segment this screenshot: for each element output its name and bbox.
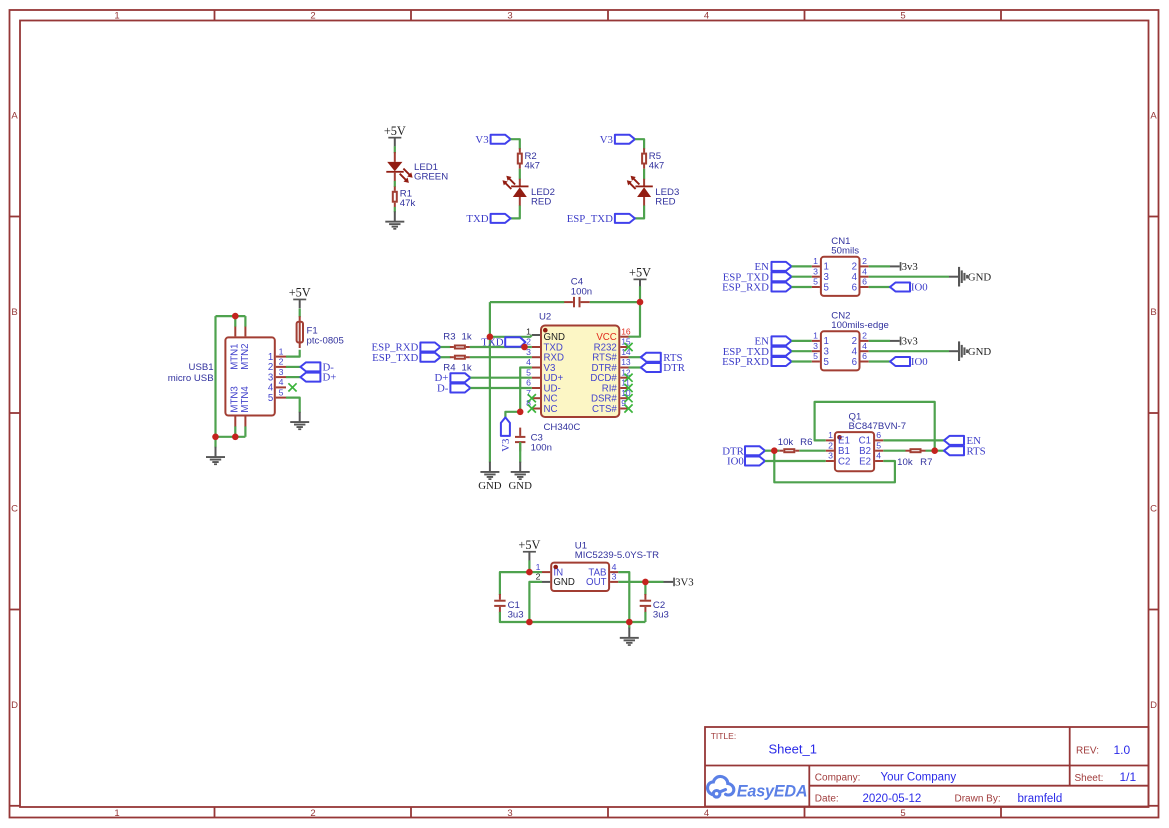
- title value Sheet_1: [769, 742, 817, 757]
- svg-text:10k: 10k: [897, 457, 913, 468]
- USB1 pin 5: [268, 387, 286, 404]
- CN1 pin 4: [852, 266, 869, 283]
- svg-text:3: 3: [279, 367, 284, 377]
- wire LED3 to ESP_TXD flag: [635, 206, 644, 219]
- svg-text:3: 3: [612, 572, 617, 582]
- wire MTN1 to top rail: [234, 316, 236, 327]
- svg-text:V3: V3: [475, 134, 488, 146]
- U1 pin 2 GND: [536, 572, 575, 589]
- svg-text:MTN2: MTN2: [240, 343, 251, 369]
- svg-text:+5V: +5V: [518, 538, 540, 552]
- svg-text:100mils-edge: 100mils-edge: [831, 320, 889, 331]
- U2 pin 6 UD-: [526, 378, 561, 395]
- wire CN2 pin4 to GND: [869, 350, 949, 352]
- svg-text:5: 5: [824, 357, 829, 368]
- net flag TXD (U2): [505, 337, 525, 347]
- net flag EN (CN1): [772, 262, 792, 271]
- junction (GND rail right): [626, 619, 633, 626]
- svg-text:ESP_TXD: ESP_TXD: [567, 213, 613, 225]
- title label TITLE:: [711, 731, 737, 741]
- net label V3 (LED3): [600, 134, 613, 146]
- wire ground rail: [500, 612, 646, 622]
- U1 pin 3 OUT: [586, 572, 618, 589]
- svg-text:4: 4: [704, 808, 709, 819]
- LED LED3 (red): [627, 176, 653, 206]
- svg-text:4: 4: [279, 377, 284, 387]
- svg-text:C: C: [1150, 504, 1157, 515]
- svg-text:GND: GND: [968, 346, 992, 358]
- svg-text:EasyEDA: EasyEDA: [737, 782, 808, 800]
- svg-text:NC: NC: [544, 404, 558, 415]
- svg-text:Company:: Company:: [815, 772, 861, 783]
- svg-text:3V3: 3V3: [675, 577, 694, 589]
- svg-text:ptc-0805: ptc-0805: [307, 336, 344, 347]
- IC U1 MIC5239-5.0YS-TR body: [551, 563, 609, 591]
- U2 pin 11 RI#: [602, 378, 631, 395]
- svg-text:R7: R7: [920, 457, 932, 468]
- net label ESP_RXD (CN1): [722, 282, 769, 294]
- wire USB1 pin2 to D- flag: [286, 366, 300, 368]
- svg-text:3v3: 3v3: [902, 261, 918, 273]
- svg-text:C2: C2: [838, 456, 850, 467]
- label C1 3u3: [508, 600, 524, 620]
- svg-text:5: 5: [900, 11, 905, 22]
- svg-text:6: 6: [876, 430, 881, 440]
- CN1 pin 3: [812, 266, 829, 283]
- USB1 pin MTN3: [230, 386, 241, 426]
- svg-text:2020-05-12: 2020-05-12: [863, 793, 922, 805]
- svg-text:Your Company: Your Company: [881, 772, 957, 784]
- net flag D+ (U2): [450, 373, 470, 382]
- net flag V3 (LED2): [491, 135, 511, 144]
- net label EN (CN1): [754, 261, 769, 273]
- label LED2 RED: [531, 187, 555, 207]
- net flag DTR (Q1): [745, 446, 765, 455]
- svg-text:3u3: 3u3: [653, 610, 669, 621]
- wire ESP_RXD to CN2: [792, 360, 812, 362]
- wire CN1 pin4 to GND: [869, 276, 949, 278]
- wire Q1 pin6 C1 to EN flag: [883, 439, 944, 441]
- svg-text:6: 6: [862, 277, 867, 287]
- wire U2 pin4 V3 down: [520, 368, 532, 412]
- no-connect X (USB1 pin 4): [288, 383, 296, 391]
- svg-text:6: 6: [526, 378, 531, 388]
- label R3 1k: [443, 332, 472, 343]
- wire ESP_RXD flag to R3: [440, 346, 450, 348]
- svg-text:3u3: 3u3: [508, 610, 524, 621]
- CN2 pin 1: [812, 331, 829, 348]
- net flag ESP_TXD (CN1): [772, 272, 792, 281]
- title label Date:: [815, 794, 839, 805]
- wire +5V to VCC node: [639, 286, 641, 302]
- wire R1 to ground: [394, 207, 396, 212]
- power flag 3V3 (U1): [664, 577, 694, 589]
- svg-text:REV:: REV:: [1076, 746, 1099, 757]
- wire D+ to U2 pin5 UD+: [470, 377, 531, 379]
- label C4 100n: [571, 276, 592, 297]
- svg-text:A: A: [11, 111, 18, 122]
- wire R3 to U2 pin2 TXD: [470, 346, 532, 348]
- USB1 pin MTN4: [240, 386, 251, 427]
- wire +5V to LED1 anode: [394, 146, 396, 153]
- U2 pin 9 CTS#: [592, 398, 628, 415]
- net label D- (USB1): [323, 361, 335, 373]
- svg-text:ESP_TXD: ESP_TXD: [372, 352, 418, 364]
- net flag ESP_RXD (CN2): [772, 357, 792, 366]
- net flag IO0 (CN1): [890, 283, 910, 292]
- USB1 pin 2: [268, 357, 286, 374]
- net label TXD (U2): [481, 337, 503, 349]
- svg-text:1: 1: [813, 331, 818, 341]
- transistor array Q1 body: [835, 432, 874, 471]
- svg-text:16: 16: [621, 326, 631, 336]
- svg-text:4k7: 4k7: [649, 160, 664, 171]
- svg-text:Sheet_1: Sheet_1: [769, 742, 817, 757]
- frame row labels A-D right: [1150, 111, 1157, 712]
- svg-text:9: 9: [621, 398, 626, 408]
- label U2: [539, 312, 551, 323]
- wire GND vertical: [489, 302, 491, 462]
- title label Company:: [815, 772, 861, 783]
- resistor R5: [642, 148, 646, 169]
- wire shield to ground: [214, 437, 216, 448]
- CN1 pin 2: [852, 256, 869, 273]
- net flag ESP_TXD (U2): [420, 353, 440, 362]
- net label V3 (C3): [500, 439, 512, 452]
- label LED3 RED: [655, 187, 679, 207]
- wire shield top: [216, 315, 246, 317]
- svg-text:1k: 1k: [462, 363, 472, 374]
- svg-text:100n: 100n: [531, 442, 552, 453]
- svg-text:10k: 10k: [778, 437, 794, 448]
- svg-text:2: 2: [862, 256, 867, 266]
- svg-text:GND: GND: [968, 272, 992, 284]
- svg-text:GREEN: GREEN: [414, 172, 448, 183]
- net label GND (right): [508, 480, 532, 492]
- svg-text:B: B: [1150, 307, 1156, 318]
- svg-text:RED: RED: [655, 196, 675, 207]
- ground (USB1 shield): [206, 447, 225, 465]
- label 10k R7: [897, 457, 932, 468]
- CN2 pin 4: [852, 341, 869, 358]
- USB1 pin 4: [268, 377, 286, 394]
- U2 pin 2 TXD: [526, 337, 563, 354]
- wire +5V node to U1 pin1: [529, 571, 542, 573]
- wire R7 to RTS flag: [926, 450, 945, 452]
- wire EN to CN1: [792, 265, 812, 267]
- net label ESP_TXD (CN1): [723, 271, 769, 283]
- net label DTR (U2): [663, 362, 685, 374]
- wire V3 flag to R2: [511, 139, 520, 149]
- svg-text:1.0: 1.0: [1114, 743, 1131, 757]
- svg-text:R3: R3: [443, 332, 455, 343]
- svg-text:47k: 47k: [400, 198, 416, 209]
- junction (GND net at U2 pin1): [487, 334, 494, 341]
- svg-text:GND: GND: [553, 577, 575, 588]
- USB1 pin 3: [268, 367, 286, 384]
- net flag ESP_RXD (U2): [420, 343, 440, 352]
- net label TXD (LED2): [466, 213, 488, 225]
- svg-text:IO0: IO0: [727, 456, 744, 468]
- label CN1 50mils: [831, 236, 859, 256]
- wire R6 to Q1 pin2 B1: [799, 450, 825, 452]
- junction (shield bottom left): [212, 434, 219, 441]
- label CH340C: [544, 422, 581, 433]
- U2 pin 14 RTS#: [592, 347, 631, 364]
- svg-text:U2: U2: [539, 312, 551, 323]
- svg-text:2: 2: [862, 331, 867, 341]
- svg-text:B: B: [11, 307, 17, 318]
- svg-text:2: 2: [828, 440, 833, 450]
- svg-text:GND: GND: [508, 480, 532, 492]
- no-connect X (U2 pin 7): [528, 394, 536, 402]
- resistor R2: [518, 148, 522, 169]
- CN2 pin 3: [812, 341, 829, 358]
- CN1 pin 6: [852, 277, 869, 294]
- net flag RTS (U2): [641, 353, 661, 362]
- junction (DTR/E2 node): [771, 447, 778, 454]
- svg-text:OUT: OUT: [586, 577, 607, 588]
- net flag ESP_TXD (LED3): [615, 214, 635, 223]
- wire ESP_TXD flag to R4: [440, 356, 450, 358]
- net flag ESP_TXD (CN2): [772, 347, 792, 356]
- svg-text:1/1: 1/1: [1120, 770, 1137, 784]
- wire USB1 pin1 to F1: [286, 350, 300, 357]
- Q1 pin 4 E2: [859, 451, 883, 468]
- ground (U1): [620, 628, 639, 646]
- net flag ESP_RXD (CN1): [772, 283, 792, 292]
- resistor R1: [393, 187, 397, 208]
- U2 pin 3 RXD: [526, 347, 564, 364]
- wire C3 to ground: [519, 442, 521, 463]
- net label GND (CN2): [968, 346, 992, 358]
- net flag EN (Q1): [944, 436, 964, 445]
- USB1 pin MTN2: [240, 326, 251, 370]
- net flag IO0 (CN2): [890, 357, 910, 366]
- wire ESP_RXD to CN1: [792, 286, 812, 288]
- title value 1.0: [1114, 743, 1131, 757]
- wire DTR to Q1 pin4 E2 bottom: [774, 451, 895, 483]
- svg-text:DTR: DTR: [663, 362, 685, 374]
- no-connect X (U2 pin 8): [528, 404, 536, 412]
- +5V power flag (LED1): [384, 124, 406, 147]
- svg-text:3v3: 3v3: [902, 336, 918, 348]
- net label ESP_RXD (CN2): [722, 356, 769, 368]
- ground flag GND (CN1): [949, 267, 968, 287]
- label Q1 BC847BVN-7: [849, 412, 907, 432]
- Q1 pin 2 B1: [826, 440, 850, 457]
- connector CN1 body: [821, 257, 860, 296]
- wire U2 pin13 to DTR flag: [629, 366, 641, 368]
- net label GND (CN1): [968, 272, 992, 284]
- wire CN1 pin6 to IO0: [869, 286, 890, 288]
- svg-text:D+: D+: [323, 372, 337, 384]
- wire VCC node to U2 pin16: [629, 302, 641, 337]
- svg-text:5: 5: [900, 808, 905, 819]
- wire C4 to VCC node: [590, 301, 640, 303]
- resistor R3: [450, 346, 470, 349]
- net flag RTS (Q1): [944, 446, 964, 455]
- svg-text:+5V: +5V: [384, 124, 406, 138]
- title label Sheet:: [1075, 773, 1104, 784]
- capacitor C1: [494, 594, 505, 613]
- net label GND (left): [478, 480, 502, 492]
- svg-text:D: D: [1150, 700, 1157, 711]
- wire LED1 cathode to R1: [394, 181, 396, 187]
- CN2 pin 2: [852, 331, 869, 348]
- svg-text:5: 5: [526, 367, 531, 377]
- wire CN2 pin6 to IO0: [869, 360, 890, 362]
- label USB1 micro USB: [168, 362, 214, 384]
- label R1 47k: [400, 189, 416, 210]
- wire V3 node to V3 flag: [505, 412, 520, 418]
- wire MTN4 to bottom rail: [244, 426, 246, 436]
- label F1 ptc-0805: [307, 325, 344, 346]
- svg-text:V3: V3: [500, 439, 512, 452]
- net label ESP_TXD (U2): [372, 352, 418, 364]
- svg-text:RED: RED: [531, 196, 551, 207]
- net label IO0 (CN2): [911, 356, 928, 368]
- wire +5V to U1 IN: [528, 560, 530, 572]
- svg-text:ESP_RXD: ESP_RXD: [722, 282, 769, 294]
- wire EN to CN2: [792, 340, 812, 342]
- junction (VCC node): [637, 299, 644, 306]
- power flag 3v3 (CN2): [890, 336, 918, 348]
- svg-text:6: 6: [852, 357, 857, 368]
- ground (C3): [511, 462, 530, 480]
- svg-text:D: D: [11, 700, 18, 711]
- title value 2020-05-12: [863, 793, 922, 805]
- svg-text:3: 3: [507, 808, 512, 819]
- svg-text:TITLE:: TITLE:: [711, 731, 737, 741]
- svg-text:1: 1: [828, 430, 833, 440]
- Q1 pin 3 C2: [826, 451, 851, 468]
- ground (U2 GND): [480, 462, 499, 480]
- Q1 pin 1 E1: [826, 430, 850, 447]
- svg-text:IO0: IO0: [911, 356, 928, 368]
- net flag TXD (LED2): [491, 214, 511, 223]
- svg-text:3: 3: [813, 266, 818, 276]
- svg-text:+5V: +5V: [289, 286, 311, 300]
- wire ESP_TXD to CN2: [792, 350, 812, 352]
- svg-text:Drawn By:: Drawn By:: [955, 794, 1001, 805]
- EasyEDA logo: [708, 776, 808, 800]
- U1 pin 1 IN: [536, 562, 563, 579]
- +5V power flag (U2): [629, 266, 651, 289]
- U2 pin 5 UD+: [526, 367, 563, 384]
- CN1 pin 1: [812, 256, 829, 273]
- wire rail to ground: [628, 622, 630, 628]
- wire D- to U2 pin6 UD-: [470, 387, 531, 389]
- wire MTN2 to top rail: [244, 316, 246, 327]
- wire R5 to LED3: [643, 169, 645, 180]
- U2 pin 15 R232: [594, 337, 631, 354]
- svg-text:4: 4: [612, 562, 617, 572]
- net label RTS (U2): [663, 352, 682, 364]
- wire R4 to U2 pin3 RXD: [470, 356, 532, 358]
- svg-text:1: 1: [526, 326, 531, 336]
- wire U2 pin14 to RTS flag: [629, 356, 641, 358]
- USB1 pin 1: [268, 346, 286, 363]
- svg-text:ESP_RXD: ESP_RXD: [722, 356, 769, 368]
- title value 1/1: [1120, 770, 1137, 784]
- CN1 pin 5: [812, 277, 829, 294]
- wire U1 GND to rail: [529, 582, 542, 622]
- wire DTR flag to R6: [765, 450, 779, 452]
- label C3 100n: [531, 432, 552, 453]
- U2 pin 7 NC: [526, 388, 557, 405]
- label C2 3u3: [653, 600, 669, 620]
- svg-text:3: 3: [828, 451, 833, 461]
- net flag V3 (C3): [501, 417, 510, 436]
- svg-text:4: 4: [704, 11, 709, 22]
- label 10k R6: [778, 437, 813, 448]
- wire V3 flag to R5: [635, 139, 644, 149]
- U2 pin 1 GND: [526, 326, 565, 343]
- net label D- (U2): [437, 383, 449, 395]
- capacitor C3: [515, 428, 525, 452]
- svg-text:2: 2: [279, 357, 284, 367]
- wire CN1 pin2 to 3v3: [869, 265, 890, 267]
- wire U1 TAB to rail: [618, 572, 629, 622]
- capacitor C2: [640, 594, 651, 613]
- svg-text:5: 5: [813, 277, 818, 287]
- capacitor C4: [564, 297, 590, 307]
- resistor R4: [450, 356, 470, 359]
- U2 pin 4 V3: [526, 357, 555, 374]
- svg-text:3: 3: [813, 341, 818, 351]
- svg-text:bramfeld: bramfeld: [1018, 793, 1063, 805]
- wire OUT node to C2: [644, 582, 646, 595]
- svg-text:1: 1: [114, 11, 119, 22]
- wire LED2 to TXD flag: [511, 206, 520, 219]
- fuse F1 ptc-0805: [297, 316, 303, 348]
- svg-text:4: 4: [876, 451, 881, 461]
- junction (+5V/IN node): [526, 569, 533, 576]
- svg-text:1: 1: [279, 346, 284, 356]
- title block outline: [705, 727, 1149, 807]
- CN2 pin 5: [812, 351, 829, 368]
- svg-text:CH340C: CH340C: [544, 422, 581, 433]
- svg-text:RTS: RTS: [967, 445, 986, 457]
- svg-text:Sheet:: Sheet:: [1075, 773, 1104, 784]
- label CN2 100mils-edge: [831, 311, 889, 331]
- svg-text:13: 13: [621, 357, 631, 367]
- no-connect X (U2 pin 9): [624, 404, 632, 412]
- svg-text:3: 3: [507, 11, 512, 22]
- resistor R7: [906, 449, 926, 452]
- ground (USB1 pin5): [290, 412, 309, 430]
- resistor R6: [779, 449, 799, 452]
- Q1 pin 5 B2: [859, 440, 883, 457]
- svg-text:5: 5: [813, 351, 818, 361]
- wire shield bottom: [216, 436, 246, 438]
- U2 pin 16 VCC: [596, 326, 631, 343]
- wire USB1 pin3 to D+ flag: [286, 376, 300, 378]
- junction (V3/C3 node): [517, 409, 524, 416]
- frame column labels 1-5 bottom: [114, 808, 905, 819]
- svg-text:4: 4: [526, 357, 531, 367]
- svg-text:2: 2: [310, 11, 315, 22]
- svg-text:1: 1: [813, 256, 818, 266]
- net label ESP_TXD (LED3): [567, 213, 613, 225]
- svg-text:6: 6: [852, 282, 857, 293]
- wire MTN3 to bottom rail: [234, 426, 236, 436]
- wire IO0 flag to Q1 pin3 C2: [765, 460, 826, 462]
- CN2 pin 6: [852, 351, 869, 368]
- net flag D- (U2): [450, 384, 470, 393]
- svg-text:4k7: 4k7: [525, 160, 540, 171]
